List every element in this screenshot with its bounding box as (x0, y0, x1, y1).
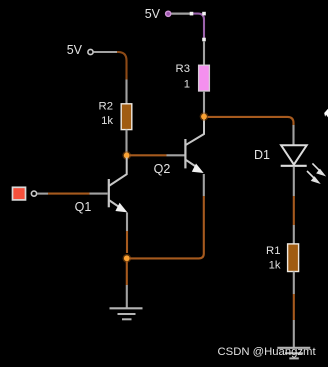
svg-text:D1: D1 (254, 148, 270, 162)
svg-text:R1: R1 (266, 245, 280, 257)
svg-text:1k: 1k (101, 115, 113, 127)
svg-text:1: 1 (184, 78, 190, 90)
svg-text:5V: 5V (67, 43, 83, 57)
svg-text:Q1: Q1 (75, 200, 92, 214)
svg-text:1k: 1k (269, 259, 281, 271)
svg-text:5V: 5V (145, 7, 161, 21)
svg-text:R3: R3 (176, 63, 190, 75)
svg-text:R2: R2 (99, 100, 113, 112)
svg-text:CSDN @Huangzmt: CSDN @Huangzmt (218, 346, 317, 358)
svg-text:Q2: Q2 (154, 162, 171, 176)
